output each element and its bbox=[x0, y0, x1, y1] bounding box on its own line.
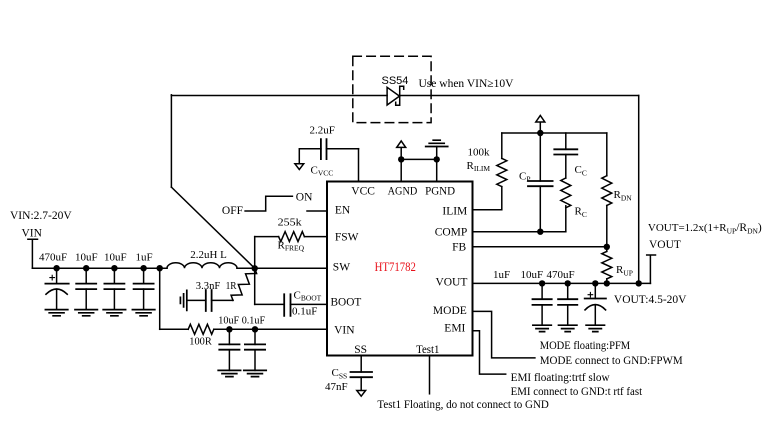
svg-text:HT71782: HT71782 bbox=[375, 260, 416, 274]
wire resistor to top rail bbox=[501, 133, 503, 158]
svg-text:EMI floating:trtf slow: EMI floating:trtf slow bbox=[511, 372, 611, 384]
svg-text:100R: 100R bbox=[189, 335, 212, 347]
ground for 1uF out bbox=[533, 325, 551, 331]
wire FB pin bbox=[473, 246, 607, 248]
capacitor C_SS 47nF bbox=[351, 372, 373, 377]
svg-text:1uF: 1uF bbox=[136, 252, 153, 264]
svg-text:2.2uH L: 2.2uH L bbox=[190, 249, 227, 261]
svg-text:Test1: Test1 bbox=[416, 344, 440, 356]
wire SW rail to IC bbox=[237, 267, 327, 269]
svg-text:VOUT:4.5-20V: VOUT:4.5-20V bbox=[614, 294, 687, 306]
node comp rail bbox=[537, 130, 543, 136]
AGND pin: open triangle up bbox=[397, 141, 406, 182]
wire input rail bbox=[32, 267, 167, 269]
node 10uF out bbox=[565, 280, 571, 286]
wire cap to gnd arrow bbox=[299, 149, 321, 164]
svg-text:255k: 255k bbox=[278, 216, 303, 228]
node 10uF vin bbox=[226, 326, 232, 332]
svg-text:1R: 1R bbox=[226, 280, 238, 292]
wire cap to gnd arrow bbox=[360, 377, 362, 390]
wire VCC pin vertical bbox=[358, 149, 360, 182]
ground for 470uF out bbox=[586, 325, 604, 331]
wire VOUT rail bbox=[473, 282, 651, 284]
svg-text:3.3nF: 3.3nF bbox=[196, 280, 221, 292]
ground for 10uF vin bbox=[218, 370, 240, 376]
wire cap to BOOT pin bbox=[291, 303, 328, 305]
svg-text:COMP: COMP bbox=[435, 227, 468, 239]
wire diode cathode to right corner bbox=[400, 95, 639, 97]
capacitor C 470uF output (polarized) bbox=[585, 283, 606, 325]
node input rail 10uF A bbox=[83, 265, 89, 271]
svg-text:VIN:2.7-20V: VIN:2.7-20V bbox=[10, 210, 72, 222]
svg-text:470uF: 470uF bbox=[547, 269, 575, 281]
svg-text:BOOT: BOOT bbox=[331, 297, 362, 309]
ground for 470uF input bbox=[45, 310, 67, 316]
wire VCC horizontal to cap bbox=[327, 148, 359, 150]
svg-text:RFREQ: RFREQ bbox=[278, 239, 305, 252]
svg-text:EN: EN bbox=[335, 204, 351, 216]
wire MODE pin leader bbox=[473, 311, 535, 358]
node R_UP bottom bbox=[604, 280, 610, 286]
node PGND bbox=[434, 156, 440, 162]
svg-text:CSS: CSS bbox=[332, 367, 348, 380]
capacitor C_BOOT 0.1uF bbox=[284, 294, 290, 316]
resistor R_FREQ 255k bbox=[279, 232, 305, 242]
svg-text:MODE floating:PFM: MODE floating:PFM bbox=[540, 340, 631, 352]
wire snubber horizontal bbox=[188, 299, 233, 301]
gnd arrow (open triangle down) SS bbox=[357, 391, 366, 397]
wire EMI pin leader bbox=[473, 331, 506, 374]
vout arrow (open triangle up) on comp rail bbox=[536, 116, 545, 134]
node input rail 470uF bbox=[53, 265, 59, 271]
gnd arrow (open triangle down) C_VCC bbox=[295, 164, 304, 170]
wire comp top rail bbox=[502, 132, 607, 134]
wire SS pin vertical bbox=[360, 356, 362, 373]
svg-text:EMI connect to GND:t rtf fast: EMI connect to GND:t rtf fast bbox=[511, 386, 643, 398]
node junction to 100R branch bbox=[157, 265, 163, 271]
svg-text:Test1 Floating, do not connect: Test1 Floating, do not connect to GND bbox=[377, 399, 549, 411]
svg-text:EMI: EMI bbox=[444, 323, 465, 335]
svg-text:10uF 0.1uF: 10uF 0.1uF bbox=[218, 315, 265, 327]
ground for 10uF input B bbox=[103, 310, 125, 316]
svg-text:1uF: 1uF bbox=[493, 269, 510, 281]
svg-text:CVCC: CVCC bbox=[311, 164, 334, 177]
capacitor C 1uF output bbox=[533, 283, 552, 325]
svg-text:VOUT: VOUT bbox=[649, 239, 681, 251]
resistor R_C bbox=[561, 178, 571, 208]
svg-text:VIN: VIN bbox=[22, 228, 43, 240]
svg-text:Use when VIN≥10V: Use when VIN≥10V bbox=[419, 78, 515, 90]
capacitor C 10uF (VIN pin) bbox=[219, 329, 239, 370]
wire resistor to vertical bbox=[255, 236, 279, 238]
wire Test1 pin vertical bbox=[429, 356, 431, 394]
node FB bbox=[604, 244, 610, 250]
capacitor C_C bbox=[554, 133, 577, 178]
wire AGND-PGND bbox=[401, 158, 437, 160]
ground for 10uF input A bbox=[75, 310, 97, 316]
svg-text:RUP: RUP bbox=[616, 264, 633, 277]
svg-text:PGND: PGND bbox=[425, 185, 455, 197]
svg-text:CP: CP bbox=[519, 170, 531, 183]
resistor 100R bbox=[188, 324, 214, 334]
wire 100R branch vertical bbox=[159, 268, 161, 329]
node VOUT rail right bbox=[636, 280, 642, 286]
node AGND bbox=[398, 156, 404, 162]
diode D1 SS54 (schottky) bbox=[387, 86, 404, 105]
capacitor C 3.3nF bbox=[206, 290, 212, 311]
svg-text:VIN: VIN bbox=[334, 325, 355, 337]
svg-text:CC: CC bbox=[575, 164, 587, 177]
capacitor C_VCC 2.2uF bbox=[321, 139, 327, 159]
svg-text:RC: RC bbox=[575, 206, 587, 219]
svg-text:SS: SS bbox=[354, 344, 367, 356]
ground for 1uF input bbox=[132, 310, 154, 316]
wire right vertical down to VOUT rail bbox=[638, 96, 640, 284]
resistor R_DN leg bbox=[602, 133, 612, 247]
svg-text:10uF: 10uF bbox=[75, 252, 98, 264]
capacitor C 10uF input B bbox=[104, 268, 124, 309]
VOUT terminal bbox=[647, 255, 656, 283]
svg-text:47nF: 47nF bbox=[325, 381, 348, 393]
wire top loop vertical left bbox=[170, 95, 172, 187]
svg-text:VOUT: VOUT bbox=[435, 276, 467, 288]
VIN input terminal bbox=[28, 239, 38, 268]
capacitor C 10uF input A bbox=[76, 268, 96, 309]
IC U1 HT71782 body bbox=[327, 182, 473, 356]
svg-text:MODE: MODE bbox=[433, 305, 467, 317]
ground sideways (snubber) bbox=[180, 290, 186, 310]
capacitor C 0.1uF (VIN pin) bbox=[245, 329, 265, 370]
wire OFF to switch bbox=[245, 196, 292, 211]
node SW bbox=[252, 265, 258, 271]
wire FSW to resistor bbox=[304, 236, 327, 238]
resistor R_ILIM 100k bbox=[497, 158, 507, 186]
wire ILIM pin bbox=[473, 187, 502, 210]
wire COMP pin bbox=[473, 231, 566, 233]
wire 100R to VIN pin bbox=[214, 328, 327, 330]
svg-text:MODE connect to GND:FPWM: MODE connect to GND:FPWM bbox=[540, 355, 683, 367]
wire EN stub bbox=[307, 210, 327, 212]
ground for 10uF out bbox=[559, 325, 577, 331]
svg-text:AGND: AGND bbox=[388, 185, 418, 197]
svg-text:RILIM: RILIM bbox=[467, 160, 491, 173]
capacitor C 1uF input bbox=[134, 268, 154, 309]
svg-text:0.1uF: 0.1uF bbox=[292, 305, 317, 317]
node 0.1uF vin bbox=[252, 326, 258, 332]
node C_P bottom on COMP wire bbox=[537, 229, 543, 235]
svg-text:CBOOT: CBOOT bbox=[294, 289, 322, 302]
wire diagonal to SW node bbox=[171, 187, 254, 268]
resistor 1R (snubber, diagonal) bbox=[229, 266, 258, 303]
svg-text:ILIM: ILIM bbox=[442, 205, 467, 217]
svg-text:2.2uF: 2.2uF bbox=[310, 124, 335, 136]
svg-text:ON: ON bbox=[296, 191, 313, 203]
wire BOOT to cap bbox=[255, 303, 285, 305]
svg-text:SW: SW bbox=[333, 262, 350, 274]
node input rail 10uF B bbox=[111, 265, 117, 271]
wire R_C to COMP wire bbox=[565, 206, 567, 232]
inductor L 2.2uH bbox=[167, 263, 237, 268]
capacitor C 470uF input (polarized) bbox=[45, 268, 68, 309]
node 470uF out bbox=[592, 280, 598, 286]
svg-text:VCC: VCC bbox=[351, 185, 375, 197]
wire vertical FSW-SW-BOOT bbox=[254, 237, 256, 305]
svg-text:RDN: RDN bbox=[614, 189, 633, 202]
svg-text:100k: 100k bbox=[468, 146, 491, 158]
PGND pin: earth ground up bbox=[426, 140, 448, 181]
ground for 0.1uF vin bbox=[244, 370, 266, 376]
svg-text:10uF: 10uF bbox=[521, 269, 544, 281]
node 1uF out bbox=[539, 280, 545, 286]
svg-text:SS54: SS54 bbox=[382, 75, 409, 87]
svg-text:FB: FB bbox=[452, 241, 466, 253]
capacitor C 10uF output bbox=[558, 283, 577, 325]
resistor R_UP bbox=[602, 247, 612, 284]
svg-text:OFF: OFF bbox=[222, 205, 243, 217]
svg-text:VOUT=1.2x(1+RUP/RDN): VOUT=1.2x(1+RUP/RDN) bbox=[648, 222, 762, 235]
svg-text:470uF: 470uF bbox=[39, 252, 67, 264]
svg-text:FSW: FSW bbox=[335, 231, 359, 243]
wire to 100R bbox=[160, 328, 189, 330]
node input rail 1uF bbox=[140, 265, 146, 271]
svg-text:10uF: 10uF bbox=[104, 252, 127, 264]
wire top horizontal to diode anode bbox=[171, 95, 387, 97]
capacitor C_P leg bbox=[528, 133, 553, 232]
dashed optional-diode box bbox=[353, 56, 431, 122]
